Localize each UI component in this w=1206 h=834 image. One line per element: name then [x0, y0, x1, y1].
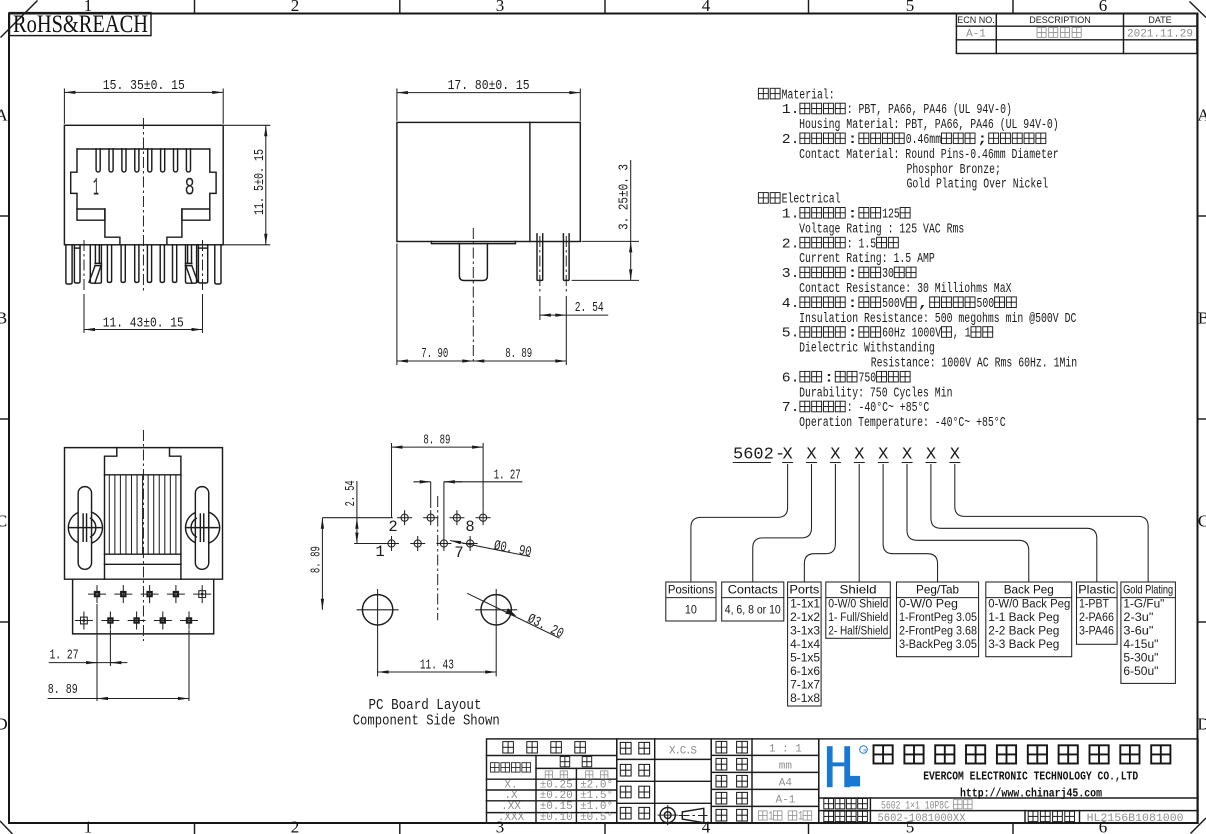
svg-text:Contact Resistance: 30 Millioh: Contact Resistance: 30 Milliohms MaX — [799, 282, 1011, 297]
svg-text:5: 5 — [906, 0, 915, 15]
svg-text:1-PBT: 1-PBT — [1079, 598, 1109, 610]
svg-text:: -40°C~ +85°C: : -40°C~ +85°C — [847, 401, 930, 416]
svg-text:X: X — [806, 446, 816, 465]
svg-text::: : — [823, 371, 835, 386]
svg-text:B: B — [0, 309, 7, 328]
svg-text:500: 500 — [977, 297, 995, 312]
svg-text:Ports: Ports — [789, 583, 819, 597]
svg-text:3-3 Back Peg: 3-3 Back Peg — [988, 639, 1059, 651]
svg-text:A4: A4 — [779, 778, 793, 790]
svg-text:Electrical: Electrical — [782, 193, 841, 208]
svg-text:ECN NO.: ECN NO. — [957, 15, 995, 25]
svg-text:8: 8 — [185, 174, 195, 203]
svg-text:D: D — [0, 715, 8, 734]
svg-text:8. 89: 8. 89 — [505, 346, 532, 362]
svg-text:1: 1 — [768, 809, 773, 824]
svg-text:125: 125 — [882, 208, 900, 223]
svg-text:Insulation Resistance: 500 meg: Insulation Resistance: 500 megohms min @… — [799, 312, 1076, 327]
svg-text:3: 3 — [496, 0, 505, 15]
svg-text:http://www.chinarj45.com: http://www.chinarj45.com — [960, 786, 1102, 800]
svg-text:Operation Temperature: -40°C~: Operation Temperature: -40°C~ +85°C — [799, 416, 1006, 431]
svg-text:6.: 6. — [782, 371, 800, 386]
svg-text:5602 1×1 10P8C: 5602 1×1 10P8C — [881, 800, 949, 812]
svg-text:5602-1081000XX: 5602-1081000XX — [878, 813, 966, 825]
svg-text:D: D — [1197, 715, 1206, 734]
svg-text:1-1x1: 1-1x1 — [790, 598, 820, 610]
svg-text:C: C — [0, 512, 7, 531]
svg-text:A-1: A-1 — [966, 29, 986, 41]
svg-text:RoHS&REACH: RoHS&REACH — [13, 11, 148, 38]
svg-text:Peg/Tab: Peg/Tab — [916, 583, 959, 597]
svg-text:5-30u": 5-30u" — [1123, 653, 1158, 665]
svg-text:30: 30 — [882, 267, 894, 282]
svg-text:Gold Plating Over Nickel: Gold Plating Over Nickel — [907, 178, 1049, 193]
svg-text:6: 6 — [1099, 0, 1108, 15]
svg-text:0-W/0 Peg: 0-W/0 Peg — [899, 598, 958, 610]
svg-text:1: 1 — [375, 543, 384, 561]
svg-text:Phosphor Bronze;: Phosphor Bronze; — [907, 163, 1001, 178]
svg-text:, 1: , 1 — [953, 327, 971, 342]
svg-text:Voltage Rating : 125 VAC Rms: Voltage Rating : 125 VAC Rms — [799, 222, 964, 237]
svg-text:Durability: 750 Cycles Min: Durability: 750 Cycles Min — [799, 386, 952, 401]
svg-text:.XXX: .XXX — [498, 812, 525, 824]
svg-text:10: 10 — [685, 605, 697, 617]
svg-text:X: X — [926, 446, 936, 465]
svg-text:X: X — [950, 446, 960, 465]
svg-text:1: 1 — [84, 818, 93, 834]
svg-text:11. 43±0. 15: 11. 43±0. 15 — [103, 315, 184, 331]
svg-text::: : — [847, 133, 859, 148]
svg-text:Contacts: Contacts — [728, 583, 778, 597]
svg-text:A: A — [1197, 106, 1206, 125]
svg-text:2. 54: 2. 54 — [575, 300, 604, 316]
svg-text:2021.11.29: 2021.11.29 — [1127, 29, 1193, 41]
svg-text:3.: 3. — [782, 267, 800, 282]
svg-text:X: X — [854, 446, 864, 465]
svg-text:7: 7 — [454, 544, 463, 562]
svg-text:C: C — [1198, 512, 1206, 531]
svg-text:6-50u": 6-50u" — [1123, 666, 1158, 678]
svg-text:6-1x6: 6-1x6 — [790, 666, 820, 678]
svg-text:1.: 1. — [782, 208, 800, 223]
svg-text:1- Full/Shield: 1- Full/Shield — [828, 612, 888, 624]
svg-text:3. 25±0. 3: 3. 25±0. 3 — [617, 164, 633, 230]
svg-text:Component Side Shown: Component Side Shown — [353, 712, 500, 729]
svg-text:,: , — [918, 297, 930, 312]
svg-text:7.: 7. — [782, 401, 800, 416]
svg-text:1.: 1. — [782, 103, 800, 118]
svg-text:4-1x4: 4-1x4 — [790, 639, 821, 651]
svg-text:4: 4 — [702, 0, 711, 15]
svg-text:X: X — [902, 446, 912, 465]
svg-text::: : — [847, 267, 859, 282]
svg-text:DATE: DATE — [1148, 15, 1171, 25]
svg-text:2.: 2. — [782, 237, 800, 252]
svg-text:3-PA46: 3-PA46 — [1079, 626, 1114, 638]
svg-text:2-3u": 2-3u" — [1123, 612, 1153, 624]
svg-text::: : — [847, 208, 859, 223]
svg-text:2.: 2. — [782, 133, 800, 148]
svg-text:Contact Material: Round Pins-0: Contact Material: Round Pins-0.46mm Diam… — [799, 148, 1059, 163]
svg-text:7-1x7: 7-1x7 — [790, 680, 820, 692]
svg-text:5-1x5: 5-1x5 — [790, 653, 820, 665]
svg-text:1: 1 — [93, 174, 99, 203]
svg-text:0-W/0 Back Peg: 0-W/0 Back Peg — [988, 598, 1070, 610]
svg-text::: : — [847, 297, 859, 312]
svg-text:11. 5±0. 15: 11. 5±0. 15 — [252, 149, 268, 215]
svg-text:0.46mm: 0.46mm — [906, 133, 941, 148]
svg-text:2-FrontPeg 3.68: 2-FrontPeg 3.68 — [899, 626, 977, 638]
svg-text:1. 27: 1. 27 — [50, 648, 79, 664]
svg-text:8. 89: 8. 89 — [423, 432, 450, 448]
svg-text:X: X — [878, 446, 888, 465]
svg-text:2. 54: 2. 54 — [343, 480, 359, 506]
svg-text:Shield: Shield — [840, 583, 877, 597]
svg-text:Plastic: Plastic — [1078, 583, 1115, 597]
svg-text:60Hz 1000V: 60Hz 1000V — [882, 327, 942, 342]
svg-text:5.: 5. — [782, 327, 800, 342]
svg-text:8-1x8: 8-1x8 — [790, 693, 820, 705]
svg-text:4-15u": 4-15u" — [1123, 639, 1158, 651]
svg-text:5602: 5602 — [733, 446, 774, 465]
svg-text:;: ; — [977, 133, 989, 148]
svg-text:B: B — [1198, 309, 1206, 328]
svg-text:2: 2 — [291, 0, 300, 15]
svg-text:EVERCOM ELECTRONIC TECHNOLOGY: EVERCOM ELECTRONIC TECHNOLOGY CO.,LTD — [923, 770, 1138, 784]
svg-text:A-1: A-1 — [775, 795, 795, 807]
svg-text:8. 89: 8. 89 — [309, 546, 325, 573]
svg-text:mm: mm — [779, 761, 793, 773]
svg-text:1-FrontPeg 3.05: 1-FrontPeg 3.05 — [899, 612, 977, 624]
svg-text:: 1.5: : 1.5 — [847, 237, 877, 252]
svg-text:1-1 Back Peg: 1-1 Back Peg — [988, 612, 1059, 624]
svg-text:Material:: Material: — [782, 88, 835, 103]
svg-text:7. 90: 7. 90 — [421, 346, 448, 362]
svg-text:Ø3. 20: Ø3. 20 — [525, 611, 566, 642]
svg-text:15. 35±0. 15: 15. 35±0. 15 — [103, 78, 185, 94]
svg-text:2: 2 — [388, 518, 397, 536]
svg-text:1: 1 — [798, 809, 803, 824]
svg-text:3-BackPeg 3.05: 3-BackPeg 3.05 — [899, 639, 977, 651]
svg-text:Resistance: 1000V AC Rms 60Hz.: Resistance: 1000V AC Rms 60Hz. 1Min — [871, 357, 1077, 372]
svg-text:3-6u": 3-6u" — [1123, 626, 1153, 638]
svg-text:2-2 Back Peg: 2-2 Back Peg — [988, 626, 1059, 638]
svg-text:1-G/Fu": 1-G/Fu" — [1123, 598, 1164, 610]
svg-text:3-1x3: 3-1x3 — [790, 626, 820, 638]
svg-text:2- Half/Shield: 2- Half/Shield — [828, 626, 888, 638]
svg-text:8: 8 — [465, 518, 474, 536]
svg-text:Gold Plating: Gold Plating — [1123, 583, 1173, 597]
svg-text:X: X — [830, 446, 840, 465]
svg-text:X.C.S: X.C.S — [669, 746, 697, 758]
svg-text:11. 43: 11. 43 — [420, 658, 454, 674]
svg-text:500V: 500V — [882, 297, 906, 312]
svg-text:Back Peg: Back Peg — [1004, 583, 1054, 597]
svg-text:±0.10: ±0.10 — [540, 812, 573, 824]
svg-text:±0.5°: ±0.5° — [580, 812, 613, 824]
svg-text:4.: 4. — [782, 297, 800, 312]
svg-text:HL2156B1081000: HL2156B1081000 — [1087, 813, 1184, 825]
svg-text:: PBT, PA66, PA46 (UL 94V-0): : PBT, PA66, PA46 (UL 94V-0) — [847, 103, 1012, 118]
svg-text:Positions: Positions — [668, 583, 714, 597]
svg-text:Current Rating: 1.5 AMP: Current Rating: 1.5 AMP — [799, 252, 935, 267]
svg-text:750: 750 — [859, 371, 877, 386]
svg-text:1 : 1: 1 : 1 — [769, 744, 802, 756]
svg-text:0-W/0 Shield: 0-W/0 Shield — [828, 598, 888, 610]
svg-text:A: A — [0, 106, 8, 125]
svg-text:X: X — [782, 446, 792, 465]
svg-text:Housing Material: PBT, PA66, P: Housing Material: PBT, PA66, PA46 (UL 94… — [799, 118, 1059, 133]
svg-text::: : — [847, 327, 859, 342]
svg-text:DESCRIPTION: DESCRIPTION — [1029, 15, 1091, 25]
svg-text:Dielectric Withstanding: Dielectric Withstanding — [799, 342, 935, 357]
svg-text:2-PA66: 2-PA66 — [1079, 612, 1114, 624]
svg-text:2: 2 — [291, 818, 300, 834]
svg-text:8. 89: 8. 89 — [48, 682, 78, 698]
svg-text:17. 80±0. 15: 17. 80±0. 15 — [448, 78, 530, 94]
svg-text:4, 6, 8 or 10: 4, 6, 8 or 10 — [725, 605, 781, 617]
svg-text:2-1x2: 2-1x2 — [790, 612, 820, 624]
svg-text:1. 27: 1. 27 — [494, 467, 521, 483]
svg-text:Ø0. 90: Ø0. 90 — [492, 538, 532, 561]
